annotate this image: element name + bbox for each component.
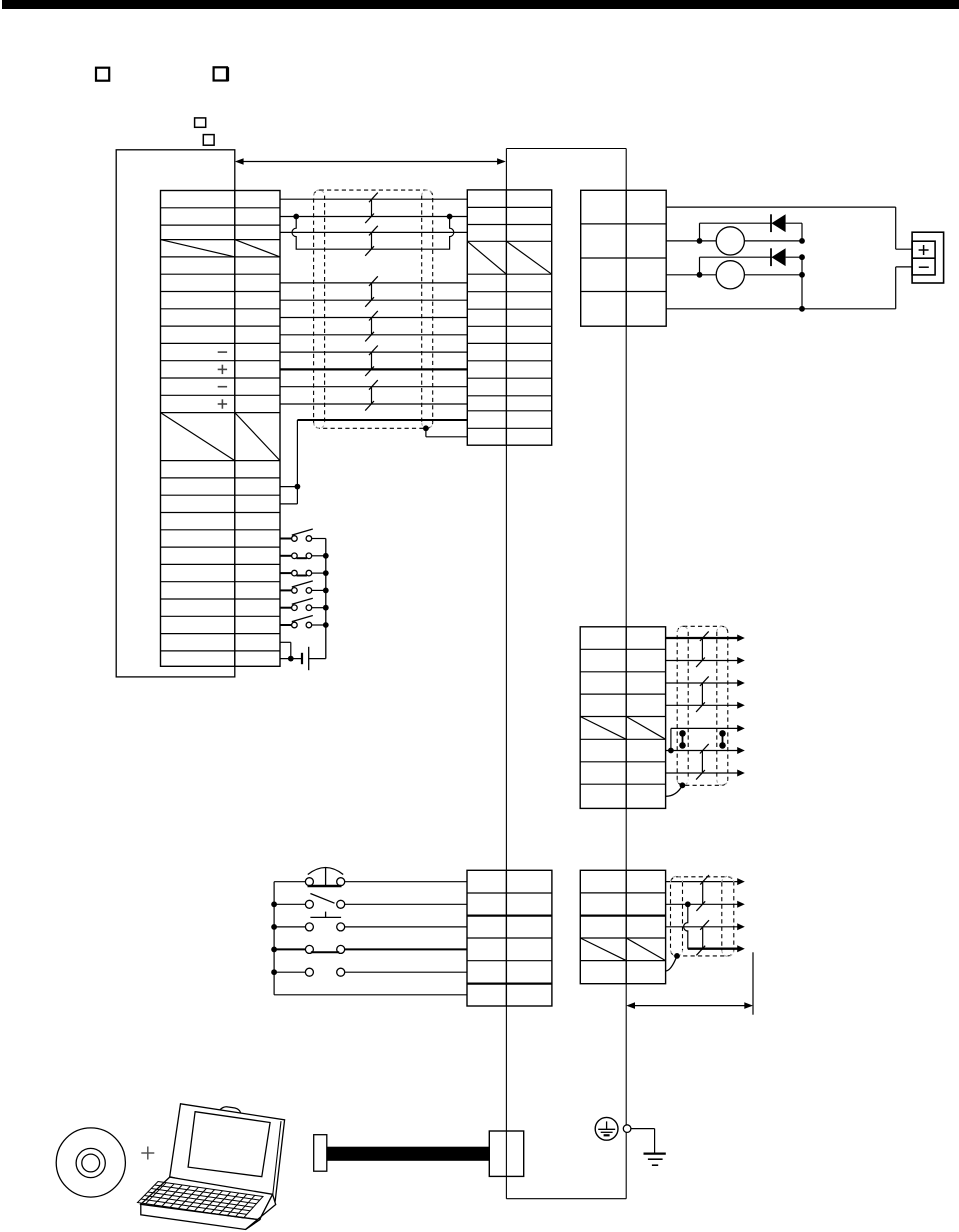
crossover loop wire	[292, 219, 454, 249]
TB1 diagonal cell large	[161, 413, 281, 461]
external switch bus	[271, 882, 467, 995]
terminal block TB3 (controller right top)	[581, 190, 667, 326]
output wire B3	[666, 923, 745, 930]
output wire A2	[666, 657, 745, 664]
keyboard keys	[138, 1182, 264, 1219]
terminal block TB2 (controller left)	[467, 190, 551, 445]
dimension arrow top	[235, 158, 506, 165]
TB4 diagonal cell	[580, 717, 665, 740]
output wire A3	[666, 680, 745, 687]
wire signal 9 (analog)	[280, 368, 467, 370]
power supply 24VDC	[912, 232, 944, 283]
TB1 diagonal cell small	[161, 240, 281, 257]
output wire A6	[666, 747, 745, 754]
terminal block TB5 (controller left bottom)	[467, 870, 552, 1006]
PE terminal circle	[623, 1125, 631, 1133]
diode D1	[700, 214, 803, 241]
output wire B2	[666, 901, 745, 908]
crossover drop B2 to B4	[684, 907, 688, 949]
output wire B4 (thick)	[688, 945, 745, 952]
controller unit box	[506, 149, 626, 1199]
lamp return bus	[799, 275, 805, 312]
external switch NO contact	[274, 894, 467, 909]
external switch open contact	[274, 968, 467, 976]
twisted pair mark 1	[365, 193, 378, 224]
wire SD shield left	[280, 484, 300, 490]
input switch SW5	[280, 598, 329, 610]
wire signal 3	[280, 231, 467, 233]
analog input polarity labels	[218, 352, 227, 409]
input switch SW3	[280, 570, 329, 576]
lamp L2	[716, 261, 744, 289]
wire signal 11	[280, 403, 467, 405]
twisted pair mark 5	[365, 346, 378, 377]
wire shield thick to TB2	[297, 419, 467, 421]
terminal block TB6 (controller right bottom)	[580, 870, 665, 983]
output wire B1	[666, 878, 745, 885]
communication cable connector large	[489, 1131, 523, 1176]
input switch SW2	[280, 553, 329, 559]
shield pigtail TB6	[666, 953, 680, 971]
twisted pair mark 2	[365, 226, 378, 256]
setup software CD-ROM	[56, 1128, 125, 1197]
wire pulse P	[280, 198, 467, 200]
switch common bus	[325, 539, 327, 659]
twisted pair mark 4	[365, 311, 378, 342]
output wire A7	[666, 770, 745, 777]
communication cable connector small	[314, 1135, 327, 1172]
twisted pair mark 8	[696, 676, 709, 712]
twisted pair mark 6	[365, 380, 378, 411]
wire signal 7	[280, 334, 467, 336]
shield drop to TB2 bottom	[423, 425, 467, 436]
twisted pair mark 11	[696, 920, 709, 955]
terminal block TB4 (controller right mid)	[580, 627, 665, 809]
placeholder square 1	[96, 68, 109, 81]
cable sheath dashed box 2	[677, 626, 728, 785]
wire pulse N with junction dots	[280, 214, 467, 220]
connector pin pair 2	[719, 730, 726, 749]
external switch NC contact	[274, 912, 467, 931]
shield pigtail TB4	[666, 782, 686, 796]
input switch SW6	[280, 616, 329, 628]
servo amplifier box	[116, 150, 235, 677]
wire signal 4	[280, 282, 467, 284]
communication cable	[327, 1147, 490, 1161]
input switch SW1	[280, 529, 326, 541]
wire 0V return bottom	[666, 267, 912, 309]
wire signal 8	[280, 351, 467, 353]
terminal block TB1 (amplifier left)	[161, 191, 281, 667]
header bar	[2, 0, 959, 9]
emergency stop button EMG	[274, 867, 467, 886]
dimension arrow bottom	[626, 952, 753, 1014]
plus sign	[141, 1147, 154, 1160]
twisted pair mark 10	[696, 875, 709, 911]
lamp L1	[716, 227, 744, 255]
output wire A1 (thick)	[666, 635, 745, 642]
twisted pair mark 7	[696, 631, 709, 667]
placeholder square 2	[214, 67, 229, 81]
wire 24V supply top	[666, 207, 912, 249]
wire signal 10	[280, 386, 467, 388]
placeholder square 4	[203, 135, 214, 146]
connector pin pair 1	[679, 730, 686, 749]
input switch SW4	[280, 581, 329, 593]
twisted pair mark 3	[365, 276, 378, 307]
wire signal 6	[280, 317, 467, 319]
cable sheath dashed box 1	[314, 190, 433, 428]
external switch closed contact	[274, 945, 467, 953]
external DC supply battery	[280, 642, 326, 670]
protective earth symbol	[595, 1117, 618, 1140]
output wire A4	[666, 702, 745, 709]
TB6 diagonal cell	[580, 938, 665, 961]
diode D2	[700, 248, 805, 274]
wire signal 5	[280, 299, 467, 301]
cable sheath dashed box 3	[671, 876, 734, 956]
twisted pair mark 9	[696, 744, 709, 780]
wire lamp 1 row	[666, 238, 805, 244]
wire SD shield vertical	[280, 420, 297, 504]
wire lamp 2 row	[666, 272, 805, 278]
output wire A5 branch	[668, 725, 745, 753]
placeholder square 3	[195, 118, 206, 127]
TB2 diagonal cell	[467, 241, 551, 274]
personal computer	[141, 1104, 285, 1230]
earth ground	[631, 1129, 666, 1166]
